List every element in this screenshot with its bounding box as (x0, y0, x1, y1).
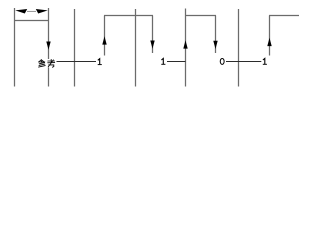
wire: level line of reference cell (y=20.2) (14, 20, 49, 22)
label 参考 (hand-drawn tiny glyphs) (38, 59, 54, 67)
wire: grid vertical line t4 (x=185.3) (185, 9, 187, 87)
label 1 (fourth bit) (263, 58, 267, 64)
annotation line 0 -> 1 (226, 61, 261, 63)
arrow up on t4 (x=185) (183, 40, 187, 48)
dimension shaft between t0 and t1 (27, 10, 36, 12)
wire: grid vertical line t0 (x=14.5) (14, 8, 16, 87)
wire: grid vertical line t5 (x=238.5) (238, 9, 240, 87)
annotation line 1 -> t4 (167, 61, 186, 63)
wire: grid vertical line t3 (x=135.5) (135, 9, 137, 87)
wire: signal rise at x=269 (269, 16, 271, 56)
arrow down at x=215.3 (213, 41, 217, 49)
dimension arrowhead left (15, 9, 27, 14)
wire: high level 185..215 (185, 15, 216, 17)
arrow up at x=105 (102, 36, 106, 44)
wire: grid vertical line t2 (x=75) (74, 9, 76, 87)
wire: signal rise at x=105 (104, 16, 106, 56)
dimension arrowhead right (36, 9, 48, 14)
arrow down at x=152 (150, 41, 154, 49)
glyph 考 (48, 60, 55, 62)
wire: signal fall at x=152 (152, 16, 154, 54)
wire: high level 269..298.5 (269, 15, 299, 17)
glyph 参 (40, 60, 44, 62)
label 1 (first bit) (98, 59, 102, 65)
arrow up at x=269 (267, 38, 271, 46)
annotation line 参考 -> 1 (57, 61, 97, 63)
label 0 (third bit) (220, 58, 224, 64)
wire: grid vertical line t1 (x=48, reference edge), gap for text (48, 8, 50, 59)
wire: high level 105..152 (104, 15, 153, 17)
label 1 (second bit) (161, 58, 165, 64)
wire: signal fall at x=215.3 (215, 16, 217, 54)
arrow down on t1 (reference pulse) (46, 42, 50, 50)
